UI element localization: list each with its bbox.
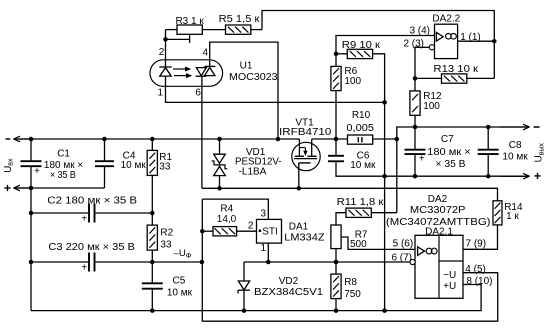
svg-text:10 мк: 10 мк — [502, 151, 528, 162]
svg-text:8 (10): 8 (10) — [466, 276, 492, 287]
svg-text:1: 1 — [158, 88, 164, 99]
svg-text:-L1BA: -L1BA — [239, 167, 267, 178]
svg-text:R13 10 к: R13 10 к — [433, 64, 478, 75]
svg-text:R2: R2 — [160, 227, 173, 238]
svg-text:R4: R4 — [220, 203, 233, 214]
svg-text:6: 6 — [195, 88, 201, 99]
svg-text:1 к: 1 к — [506, 211, 519, 222]
svg-text:DA2.2: DA2.2 — [432, 14, 460, 25]
svg-text:3 (4): 3 (4) — [409, 25, 430, 36]
svg-text:R3 1 к: R3 1 к — [175, 16, 204, 27]
svg-text:C8: C8 — [509, 140, 522, 151]
svg-text:10 мк: 10 мк — [167, 288, 193, 299]
svg-text:C5: C5 — [173, 275, 186, 286]
svg-text:4: 4 — [203, 48, 209, 59]
svg-text:BZX384C5V1: BZX384C5V1 — [254, 287, 323, 298]
svg-text:U1: U1 — [240, 61, 253, 72]
svg-text:DA2: DA2 — [428, 194, 448, 205]
svg-text:100: 100 — [344, 76, 361, 87]
svg-text:R5 1,5 к: R5 1,5 к — [219, 14, 260, 25]
svg-text:STI: STI — [262, 226, 278, 237]
svg-text:33: 33 — [160, 240, 172, 251]
svg-text:14,0: 14,0 — [217, 214, 237, 225]
svg-text:4 (5): 4 (5) — [465, 264, 486, 275]
svg-text:MC33072P: MC33072P — [410, 205, 466, 216]
svg-text:C2 180 мк × 35 В: C2 180 мк × 35 В — [47, 196, 137, 207]
svg-text:1 (1): 1 (1) — [460, 32, 481, 43]
svg-text:R9 10 к: R9 10 к — [342, 40, 381, 51]
svg-text:100: 100 — [423, 101, 440, 112]
svg-text:C1: C1 — [57, 149, 70, 160]
svg-text:VD2: VD2 — [279, 276, 299, 287]
svg-text:R11 1,8 к: R11 1,8 к — [337, 197, 384, 208]
svg-text:DA2.1: DA2.1 — [425, 227, 453, 238]
svg-text:+: + — [81, 262, 87, 273]
svg-text:10 мк: 10 мк — [350, 160, 376, 171]
svg-text:0,005: 0,005 — [346, 123, 374, 134]
svg-text:MOC3023: MOC3023 — [229, 72, 278, 83]
svg-text:C7: C7 — [441, 134, 454, 145]
svg-text:R8: R8 — [344, 277, 357, 288]
svg-text:2 (3): 2 (3) — [403, 39, 424, 50]
svg-text:6 (7): 6 (7) — [391, 252, 412, 263]
svg-text:5 (6): 5 (6) — [393, 239, 414, 250]
svg-text:1: 1 — [261, 243, 267, 254]
svg-text:+: + — [419, 154, 425, 165]
svg-text:C3 220 мк × 35 В: C3 220 мк × 35 В — [48, 242, 135, 253]
svg-text:DA1: DA1 — [289, 222, 309, 233]
svg-text:× 35 В: × 35 В — [50, 170, 76, 181]
svg-text:+: + — [34, 166, 40, 177]
svg-text:2: 2 — [248, 220, 254, 231]
svg-text:3: 3 — [261, 209, 267, 220]
svg-text:× 35 В: × 35 В — [436, 159, 466, 170]
svg-text:10 мк: 10 мк — [121, 160, 147, 171]
svg-text:7 (9): 7 (9) — [466, 238, 487, 249]
svg-text:R10: R10 — [352, 110, 371, 121]
svg-text:−U: −U — [443, 270, 456, 281]
svg-text:33: 33 — [159, 162, 171, 173]
svg-text:2: 2 — [159, 47, 165, 58]
svg-text:LM334Z: LM334Z — [284, 233, 324, 244]
svg-text:500: 500 — [350, 239, 367, 250]
svg-text:IRFB4710: IRFB4710 — [279, 127, 332, 138]
svg-text:+U: +U — [443, 281, 456, 292]
svg-text:180 мк ×: 180 мк × — [427, 147, 471, 158]
svg-text:+: + — [81, 213, 87, 224]
svg-text:750: 750 — [344, 289, 361, 300]
